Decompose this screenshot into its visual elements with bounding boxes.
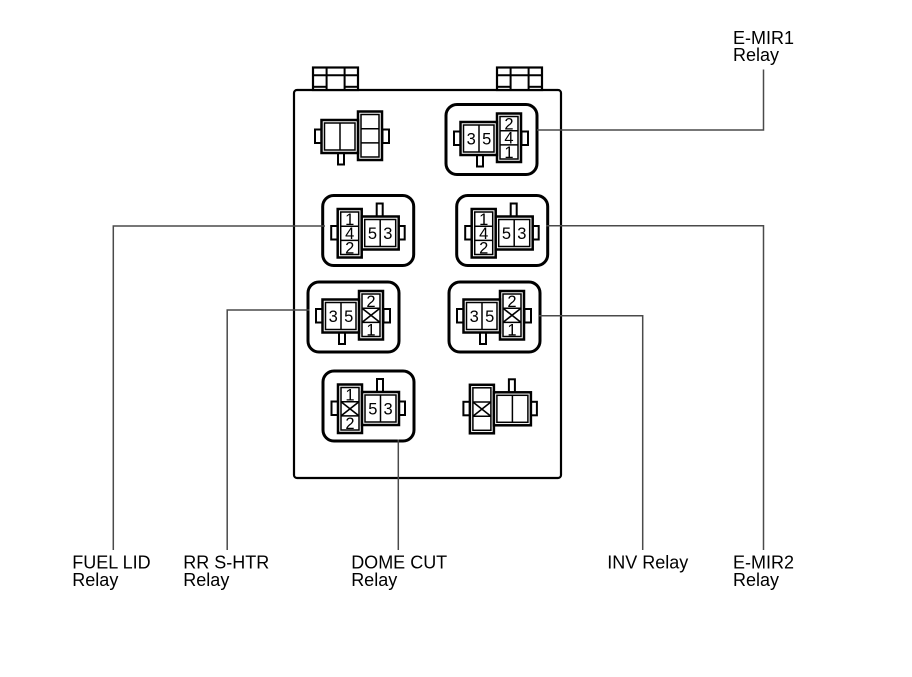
- svg-text:3: 3: [517, 225, 526, 243]
- relay body: [461, 122, 498, 155]
- bottom tab: [339, 329, 345, 345]
- bottom tab: [477, 151, 483, 167]
- relay outline: [457, 196, 548, 266]
- svg-text:3: 3: [467, 130, 476, 148]
- side tab right: [522, 132, 529, 146]
- svg-text:1: 1: [366, 321, 375, 339]
- blocked terminal (X): [503, 308, 521, 322]
- side tab right: [383, 130, 390, 144]
- terminal column: [338, 209, 362, 258]
- terminal column: [500, 291, 524, 340]
- side tab right: [399, 402, 406, 416]
- side tab right: [398, 226, 405, 240]
- svg-text:Relay: Relay: [733, 45, 779, 65]
- terminal column: [358, 112, 382, 161]
- svg-text:5: 5: [485, 308, 494, 326]
- relay body: [362, 392, 399, 425]
- svg-text:1: 1: [345, 386, 354, 404]
- wire to DOME CUT label: [397, 440, 399, 551]
- svg-text:Relay: Relay: [351, 570, 397, 590]
- relay FUEL LID (row 2 left): [323, 196, 414, 266]
- terminal column: [472, 209, 496, 258]
- mounting tab (top left): [313, 68, 358, 91]
- relay outline: [308, 282, 399, 352]
- svg-text:1: 1: [504, 144, 513, 162]
- relay body: [362, 217, 399, 250]
- svg-text:3: 3: [470, 308, 479, 326]
- relay E-MIR1 (row 1 right): [446, 105, 537, 175]
- mounting tab (top right): [497, 68, 542, 91]
- side tab left: [315, 130, 322, 144]
- wire to E-MIR2 label: [547, 226, 764, 550]
- relay outline: [323, 196, 414, 266]
- svg-text:5: 5: [482, 130, 491, 148]
- svg-text:3: 3: [384, 400, 393, 418]
- svg-text:2: 2: [345, 239, 354, 257]
- relay outline: [446, 105, 537, 175]
- svg-text:2: 2: [345, 415, 354, 433]
- terminal column: [359, 291, 383, 340]
- wire to E-MIR1 label: [537, 70, 764, 131]
- svg-text:INV Relay: INV Relay: [607, 553, 688, 573]
- blocked terminal (X): [341, 402, 359, 416]
- relay E-MIR2 (row 2 right): [457, 196, 548, 266]
- relay body: [322, 120, 359, 153]
- relay box outline: [294, 90, 561, 478]
- side tab right: [530, 402, 537, 416]
- blocked terminal (X): [362, 308, 380, 322]
- side tab left: [316, 309, 323, 323]
- svg-text:2: 2: [507, 293, 516, 311]
- svg-text:5: 5: [368, 225, 377, 243]
- relay outline: [449, 282, 540, 352]
- top tab: [377, 379, 383, 395]
- svg-text:2: 2: [366, 293, 375, 311]
- svg-text:3: 3: [383, 225, 392, 243]
- wire to INV label: [539, 316, 643, 550]
- relay INV (row 3 right): [449, 282, 540, 352]
- side tab left: [332, 402, 339, 416]
- top tab: [377, 204, 383, 220]
- svg-text:Relay: Relay: [72, 570, 118, 590]
- relay body: [323, 300, 360, 333]
- side tab left: [465, 226, 472, 240]
- side tab left: [457, 309, 464, 323]
- svg-text:2: 2: [479, 239, 488, 257]
- side tab right: [525, 309, 532, 323]
- relay DOME CUT (row 4 left): [323, 371, 414, 441]
- svg-text:5: 5: [502, 225, 511, 243]
- terminal column: [338, 385, 362, 434]
- blocked terminal (X): [473, 402, 491, 416]
- relay RR S-HTR (row 3 left): [308, 282, 399, 352]
- side tab left: [454, 132, 461, 146]
- svg-text:Relay: Relay: [733, 570, 779, 590]
- relay body: [496, 217, 533, 250]
- svg-text:Relay: Relay: [183, 570, 229, 590]
- connector (row 4 right, unlabeled): [463, 379, 537, 433]
- connector (row 1 left, unlabeled): [315, 112, 389, 165]
- bottom tab: [480, 329, 486, 345]
- top tab: [509, 379, 515, 395]
- bottom tab: [338, 149, 344, 165]
- side tab right: [532, 226, 539, 240]
- svg-text:5: 5: [344, 308, 353, 326]
- side tab left: [331, 226, 338, 240]
- relay outline: [323, 371, 414, 441]
- terminal column: [497, 114, 521, 163]
- wire to RR S-HTR label: [227, 310, 309, 550]
- side tab left: [463, 402, 470, 416]
- side tab right: [384, 309, 391, 323]
- wire to FUEL LID label: [113, 226, 325, 550]
- top tab: [511, 204, 517, 220]
- svg-text:1: 1: [507, 321, 516, 339]
- relay body: [494, 392, 531, 425]
- relay body: [464, 300, 501, 333]
- terminal column: [470, 385, 494, 434]
- svg-text:5: 5: [368, 400, 377, 418]
- svg-text:3: 3: [329, 308, 338, 326]
